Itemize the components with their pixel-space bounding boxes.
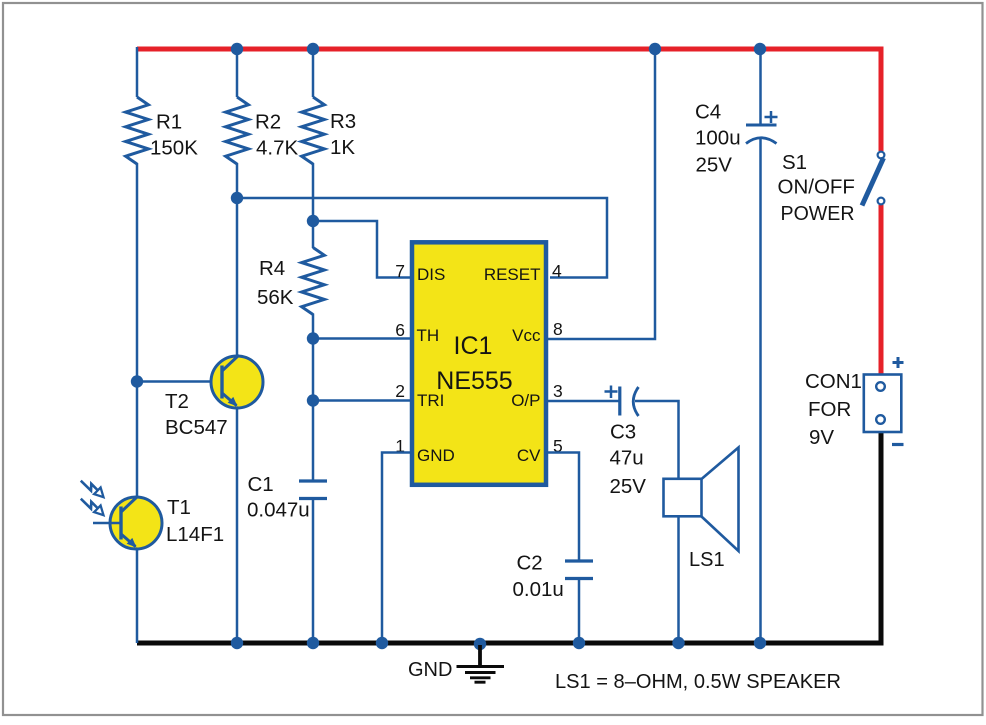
- ground bus (black): [137, 641, 884, 646]
- node: top rail / R3: [307, 43, 319, 55]
- node: R3 / R4 / DIS: [307, 215, 319, 227]
- svg-text:7: 7: [395, 261, 405, 281]
- wire: top rail to R3: [312, 47, 315, 97]
- wire: R3 to R4 node: [312, 163, 315, 248]
- svg-text:O/P: O/P: [511, 391, 540, 410]
- wire: CON1 - to ground bus (black): [879, 432, 884, 641]
- wire: node to T2 base: [137, 380, 222, 383]
- svg-text:LS1 = 8–OHM, 0.5W SPEAKER: LS1 = 8–OHM, 0.5W SPEAKER: [555, 671, 841, 693]
- svg-text:150K: 150K: [150, 137, 198, 160]
- transistor T2 BC547: [211, 355, 263, 408]
- wire: C1 to ground bus: [312, 499, 315, 643]
- pin number 3: [553, 381, 563, 401]
- wire: red rail down to switch S1: [879, 47, 884, 152]
- node: Vcc / top rail: [649, 43, 661, 55]
- wire: +V top rail (red): [137, 47, 879, 52]
- wire: O/P pin 3 to C3: [546, 400, 619, 403]
- svg-text:POWER: POWER: [781, 202, 855, 225]
- note LS1 = 8-OHM, 0.5W SPEAKER: [555, 671, 841, 693]
- node: C2 / ground bus: [573, 637, 585, 649]
- wire: Vcc pin 8 to top rail: [546, 47, 655, 339]
- svg-text:R2: R2: [255, 111, 281, 134]
- svg-text:0.01u: 0.01u: [513, 578, 564, 601]
- op IC1 NE555 body: [412, 242, 546, 484]
- capacitor C1: [299, 481, 327, 499]
- node: top rail / R2: [231, 43, 243, 55]
- label C1 0.047u: [247, 473, 310, 522]
- svg-text:S1: S1: [782, 151, 807, 174]
- resistor R1: [126, 97, 149, 164]
- svg-text:GND: GND: [408, 659, 452, 681]
- wire: R2 to T2 collector: [236, 163, 239, 356]
- label GND: [408, 659, 452, 681]
- label C4 100u 25V: [695, 101, 741, 177]
- wire: C4 to ground bus: [759, 139, 762, 643]
- wire: top rail to C4: [759, 47, 762, 125]
- svg-text:R1: R1: [156, 111, 182, 134]
- svg-text:4: 4: [552, 261, 562, 281]
- label T2 BC547: [165, 390, 228, 439]
- node: R1 / T2 base / T1 collector: [131, 375, 143, 387]
- wire: top rail to R1: [136, 47, 139, 97]
- wire: node R2 to RESET pin 4: [237, 198, 607, 278]
- svg-text:C4: C4: [695, 101, 721, 124]
- wire: node to C1: [312, 401, 315, 481]
- svg-text:9V: 9V: [809, 426, 834, 449]
- svg-text:ON/OFF: ON/OFF: [778, 176, 855, 199]
- pin number 6: [395, 320, 405, 340]
- svg-text:BC547: BC547: [165, 416, 228, 439]
- pin number 8: [553, 319, 563, 339]
- node: ground symbol / ground bus: [474, 638, 486, 650]
- light arrow 1 into T1: [81, 481, 104, 498]
- pin number 1: [395, 436, 405, 456]
- pin number 5: [553, 436, 563, 456]
- speaker LS1: [664, 448, 739, 552]
- svg-text:NE555: NE555: [436, 367, 512, 395]
- svg-text:0.047u: 0.047u: [247, 499, 310, 522]
- wire: CV pin 5 to C2: [546, 453, 579, 561]
- svg-text:TH: TH: [417, 326, 440, 345]
- resistor R2: [226, 97, 249, 164]
- svg-text:25V: 25V: [696, 154, 733, 177]
- svg-text:TRI: TRI: [417, 391, 444, 410]
- label R2 4.7K: [255, 111, 298, 160]
- svg-text:47u: 47u: [610, 447, 644, 470]
- label T1 L14F1: [166, 496, 224, 546]
- wire: speaker to ground bus: [677, 517, 680, 644]
- resistor R3: [302, 97, 325, 164]
- svg-text:6: 6: [395, 320, 405, 340]
- wire: R4 to TH node: [312, 314, 315, 401]
- wire: GND pin 1 to ground bus: [382, 453, 412, 644]
- wire: node to TRI pin 2: [313, 399, 412, 402]
- svg-text:Vcc: Vcc: [512, 326, 541, 345]
- node: speaker / ground bus: [672, 637, 684, 649]
- svg-text:3: 3: [553, 381, 563, 401]
- label C2 0.01u: [513, 552, 564, 602]
- node: C1 / ground bus: [307, 637, 319, 649]
- node: R4 / TH: [307, 332, 319, 344]
- node: C4 / ground bus: [754, 637, 766, 649]
- wire: T1 emitter to ground bus: [136, 548, 139, 643]
- svg-text:R3: R3: [330, 110, 356, 133]
- svg-text:L14F1: L14F1: [166, 523, 224, 546]
- node: top rail / C4: [754, 43, 766, 55]
- svg-text:C2: C2: [517, 552, 543, 575]
- wire: T2 emitter to ground bus: [236, 407, 239, 643]
- capacitor C2: [565, 561, 593, 579]
- connector CON1: [864, 375, 902, 433]
- svg-text:T1: T1: [167, 496, 191, 519]
- node: T2 emitter / ground bus: [231, 637, 243, 649]
- transistor T1 L14F1 (phototransistor): [110, 496, 162, 549]
- svg-text:RESET: RESET: [484, 265, 541, 284]
- svg-text:FOR: FOR: [808, 398, 851, 421]
- svg-text:C3: C3: [610, 421, 636, 444]
- label LS1: [689, 549, 725, 571]
- wire: node to DIS pin 7: [313, 221, 412, 278]
- wire: top rail to R2: [236, 47, 239, 97]
- svg-text:T2: T2: [165, 390, 189, 413]
- svg-text:100u: 100u: [695, 127, 741, 150]
- plus terminal mark: [893, 357, 904, 368]
- svg-text:25V: 25V: [610, 475, 647, 498]
- svg-text:IC1: IC1: [454, 332, 493, 360]
- label R1 150K: [150, 111, 198, 160]
- pin number 2: [395, 381, 405, 401]
- wire: node to TH pin 6: [313, 337, 412, 340]
- capacitor C4 (electrolytic): [746, 111, 778, 144]
- svg-text:DIS: DIS: [417, 265, 445, 284]
- minus terminal mark: [892, 443, 904, 446]
- svg-text:GND: GND: [417, 446, 455, 465]
- wire: C2 to ground bus: [578, 579, 581, 643]
- wire: C3 to speaker LS1: [635, 401, 679, 478]
- pin number 7: [395, 261, 405, 281]
- label CON1 FOR 9V: [805, 370, 862, 449]
- svg-text:8: 8: [553, 319, 563, 339]
- ground symbol: [457, 645, 505, 682]
- svg-text:1K: 1K: [330, 136, 355, 159]
- wire: T1 base stub: [93, 522, 120, 525]
- capacitor C3 (electrolytic): [605, 386, 639, 417]
- svg-text:CV: CV: [517, 446, 541, 465]
- svg-text:CON1: CON1: [805, 370, 862, 393]
- svg-text:C1: C1: [248, 473, 274, 496]
- label R3 1K: [330, 110, 356, 159]
- node: pin1 wire / ground bus: [376, 637, 388, 649]
- label S1 ON/OFF POWER: [778, 151, 855, 225]
- wire: R1 to T1 collector: [136, 163, 139, 497]
- label C3 47u 25V: [610, 421, 647, 499]
- svg-text:56K: 56K: [257, 286, 294, 309]
- svg-text:LS1: LS1: [689, 549, 725, 571]
- node: TRI / C1: [307, 394, 319, 406]
- node: R2 / RESET / T2 collector: [231, 192, 243, 204]
- label R4 56K: [257, 257, 294, 309]
- resistor R4: [302, 248, 325, 315]
- pin number 4: [552, 261, 562, 281]
- svg-text:4.7K: 4.7K: [256, 137, 298, 160]
- light arrow 2 into T1: [81, 499, 104, 516]
- svg-text:2: 2: [395, 381, 405, 401]
- wire: switch S1 to CON1 + (red): [879, 205, 884, 374]
- svg-text:R4: R4: [259, 257, 285, 280]
- switch S1: [862, 152, 884, 206]
